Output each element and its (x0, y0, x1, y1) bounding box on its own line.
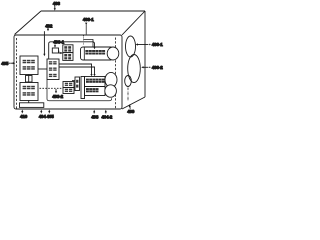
top face left slant (15, 11, 42, 35)
box: data storage module text (23, 86, 35, 96)
bottom U wire (47, 80, 112, 101)
wire box1-box2 (28, 75, 30, 83)
svg-text:406-2: 406-2 (152, 65, 163, 70)
leader 409 (129, 106, 132, 109)
svg-text:403: 403 (53, 1, 61, 6)
stub wire (28, 101, 30, 104)
svg-text:403-1: 403-1 (83, 17, 94, 22)
connector slot (20, 103, 44, 108)
roller B text (86, 79, 105, 83)
wire box1 to box3 (38, 68, 47, 70)
roller C text (86, 88, 99, 92)
wheel oval 2 (128, 55, 141, 83)
right face bottom slant (122, 97, 145, 109)
roller C end circle (105, 85, 117, 97)
svg-text:404-2: 404-2 (101, 114, 112, 119)
svg-text:406-1: 406-1 (152, 42, 163, 47)
wire 2 into cylinder A (84, 40, 94, 47)
roller B end circle (105, 72, 117, 87)
leader 404-2 (105, 111, 107, 113)
wheel oval 1 (126, 36, 136, 57)
svg-text:408: 408 (91, 114, 99, 119)
leader 402 (47, 28, 49, 30)
svg-text:402: 402 (45, 23, 53, 28)
dashed module boundary 401 (16, 38, 18, 109)
roller C body (85, 87, 106, 96)
cluster2 box b (63, 88, 74, 94)
small connector block (26, 76, 33, 83)
leader 408 (93, 111, 95, 113)
cluster2 box a (63, 82, 74, 88)
cylinder A body (81, 47, 114, 60)
cylinder A end circle (107, 47, 119, 60)
leader 403 (54, 5, 56, 8)
cluster1 box b (63, 53, 73, 61)
right face right edge (144, 11, 146, 97)
box: processor module (47, 59, 59, 80)
svg-text:404: 404 (39, 114, 47, 119)
leader 410 (21, 111, 23, 113)
svg-text:403-2: 403-2 (52, 94, 63, 99)
roller cap (81, 77, 85, 99)
wire into N1 (72, 80, 75, 82)
wire processor to cylinder A (49, 42, 95, 59)
leader 405 (9, 63, 10, 64)
leader 406-1 (137, 44, 149, 46)
leader 405 bottom (48, 111, 50, 113)
top face back edge (41, 10, 145, 12)
box: power management module (20, 56, 38, 75)
top face right slant (122, 11, 145, 35)
small key rect (52, 48, 58, 53)
bracket wire (59, 51, 61, 53)
cylinder A text (85, 50, 105, 55)
leader 403-1 (54, 44, 56, 46)
leader 404 (40, 111, 42, 113)
front face (14, 35, 122, 109)
svg-text:405: 405 (47, 114, 55, 119)
roller B body (85, 77, 106, 87)
axle dash-dot (127, 88, 129, 102)
svg-text:405: 405 (1, 61, 9, 66)
narrow box N1 (75, 77, 80, 91)
svg-text:409: 409 (127, 109, 135, 114)
leader 406-2 (142, 66, 148, 68)
box: processor module text (49, 61, 57, 77)
leader 403-2 (40, 87, 64, 89)
box: data storage module (20, 83, 38, 101)
svg-text:410: 410 (20, 114, 28, 119)
small wheel oval (125, 76, 132, 87)
dotted wire into cylinder A (83, 36, 85, 46)
cluster1 box a (63, 45, 73, 53)
box: power management module text (23, 60, 35, 70)
wires processor to roller B (59, 64, 92, 75)
